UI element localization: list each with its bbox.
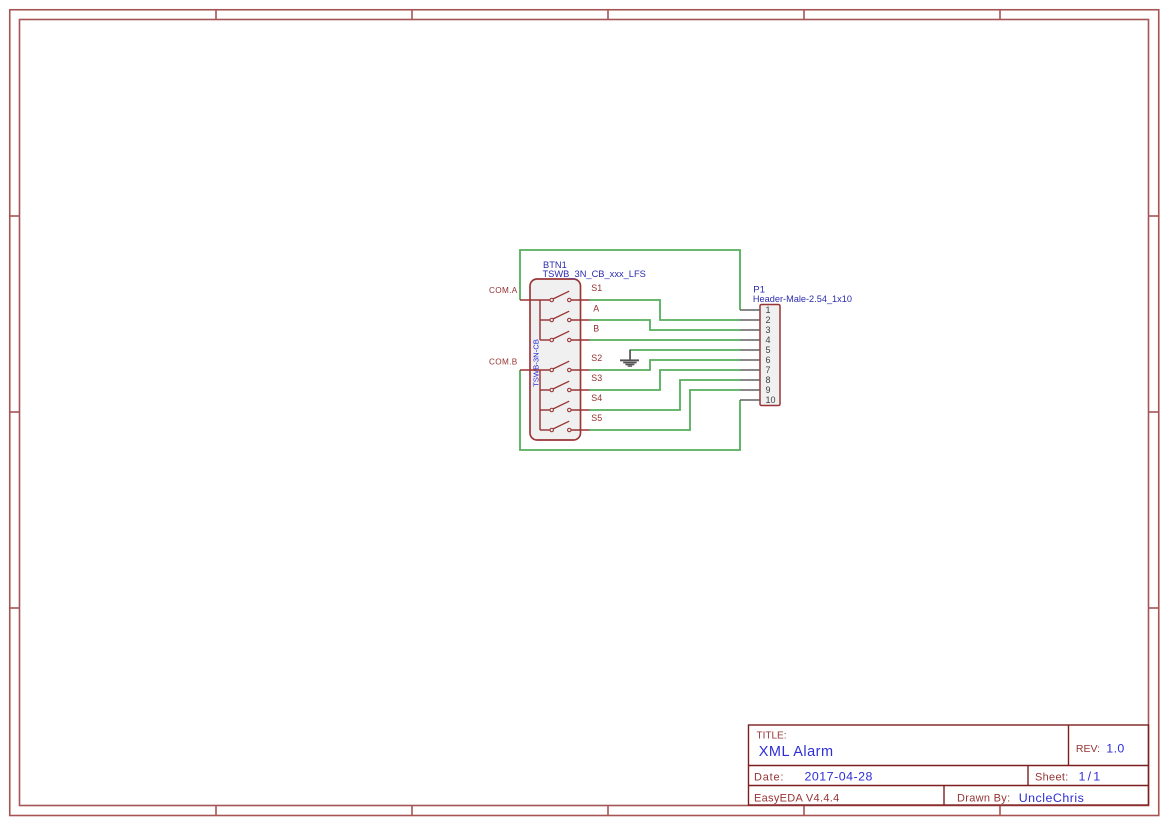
svg-text:Date:: Date: xyxy=(754,771,784,783)
P1 pin 2 xyxy=(740,315,771,325)
svg-text:5: 5 xyxy=(766,345,771,355)
svg-text:REV:: REV: xyxy=(1076,743,1100,755)
svg-text:COM.A: COM.A xyxy=(489,286,518,295)
Drawn By: label xyxy=(957,792,1010,804)
wire S2 to P1 pin6 xyxy=(590,360,741,370)
svg-text:9: 9 xyxy=(766,385,771,395)
REV: label xyxy=(1076,743,1100,755)
svg-text:1.0: 1.0 xyxy=(1106,741,1124,755)
switch S4 xyxy=(550,401,590,412)
P1 pin 9 xyxy=(740,385,771,395)
svg-text:3: 3 xyxy=(766,325,771,335)
wire net COM.A to P1 pin1 xyxy=(520,250,740,310)
switch component BTN1 body xyxy=(530,279,581,440)
svg-text:TITLE:: TITLE: xyxy=(757,731,787,742)
title block TITLE: xyxy=(757,731,787,742)
svg-text:2017-04-28: 2017-04-28 xyxy=(805,770,873,784)
svg-text:S3: S3 xyxy=(591,373,602,383)
svg-text:1: 1 xyxy=(766,305,771,315)
wire GND to P1 pin5 xyxy=(630,349,740,351)
header P1 body xyxy=(760,305,780,406)
P1 pin 7 xyxy=(740,365,771,375)
pin label S1 xyxy=(591,283,602,293)
P1 pin 10 xyxy=(740,395,776,405)
svg-text:S5: S5 xyxy=(591,413,602,423)
pin label B xyxy=(593,323,599,333)
svg-text:S4: S4 xyxy=(591,393,602,403)
switch S3 xyxy=(550,381,590,392)
svg-text:XML Alarm: XML Alarm xyxy=(759,744,834,760)
BTN1 value label xyxy=(543,269,646,279)
drawn by value UncleChris xyxy=(1019,791,1085,805)
svg-text:Sheet:: Sheet: xyxy=(1035,771,1069,783)
wire S5 to P1 pin9 xyxy=(590,390,741,430)
pin label A xyxy=(593,303,599,313)
svg-text:TSWB-3N-CB: TSWB-3N-CB xyxy=(531,339,540,387)
P1 pin 8 xyxy=(740,375,771,385)
svg-text:6: 6 xyxy=(766,355,771,365)
BTN1 reference label xyxy=(543,260,567,270)
svg-text:COM.B: COM.B xyxy=(489,357,518,366)
P1 reference label xyxy=(753,285,765,296)
pin label S2 xyxy=(591,353,602,363)
revision value 1.0 xyxy=(1106,741,1124,755)
switch S5 xyxy=(550,421,590,432)
ground xyxy=(620,350,639,367)
switch S1 xyxy=(550,291,590,302)
COM.A pin and bus xyxy=(520,300,550,340)
wire net COM.B to P1 pin10 xyxy=(520,370,740,450)
svg-text:10: 10 xyxy=(766,395,776,405)
svg-text:S2: S2 xyxy=(591,353,602,363)
COM.B pin and bus xyxy=(520,370,550,430)
svg-text:EasyEDA V4.4.4: EasyEDA V4.4.4 xyxy=(754,792,840,804)
P1 pin 4 xyxy=(740,335,771,345)
title text XML Alarm xyxy=(759,744,834,760)
svg-text:TSWB_3N_CB_xxx_LFS: TSWB_3N_CB_xxx_LFS xyxy=(543,269,646,279)
switch B xyxy=(550,331,590,342)
svg-text:UncleChris: UncleChris xyxy=(1019,791,1085,805)
svg-text:A: A xyxy=(593,303,599,313)
svg-text:2: 2 xyxy=(766,315,771,325)
svg-text:7: 7 xyxy=(766,365,771,375)
svg-text:S1: S1 xyxy=(591,283,602,293)
pin label S3 xyxy=(591,373,602,383)
wire S4 to P1 pin8 xyxy=(590,380,741,410)
pin label S4 xyxy=(591,393,602,403)
P1 value label xyxy=(753,294,852,304)
switch A xyxy=(550,311,590,322)
EasyEDA version xyxy=(754,792,840,804)
svg-text:B: B xyxy=(593,323,599,333)
svg-text:Drawn By:: Drawn By: xyxy=(957,792,1010,804)
BTN1 vertical name TSWB-3N-CB xyxy=(531,339,540,387)
svg-text:4: 4 xyxy=(766,335,771,345)
pin label S5 xyxy=(591,413,602,423)
P1 pin 6 xyxy=(740,355,771,365)
svg-text:Header-Male-2.54_1x10: Header-Male-2.54_1x10 xyxy=(753,294,852,304)
title block xyxy=(749,725,1149,805)
net label COM.A xyxy=(489,286,518,295)
Sheet: label xyxy=(1035,771,1069,783)
wire A to P1 pin3 xyxy=(590,320,741,330)
switch S2 xyxy=(550,361,590,372)
P1 pin 5 xyxy=(740,345,771,355)
wire S3 to P1 pin7 xyxy=(590,370,741,390)
svg-text:8: 8 xyxy=(766,375,771,385)
wire B to P1 pin4 xyxy=(590,339,741,341)
P1 pin 1 xyxy=(740,305,771,315)
date value xyxy=(805,770,873,784)
svg-text:1/1: 1/1 xyxy=(1079,770,1103,784)
wire S1 to P1 pin2 xyxy=(590,300,741,320)
Date: label xyxy=(754,771,784,783)
P1 pin 3 xyxy=(740,325,771,335)
net label COM.B xyxy=(489,357,518,366)
sheet value 1/1 xyxy=(1079,770,1103,784)
